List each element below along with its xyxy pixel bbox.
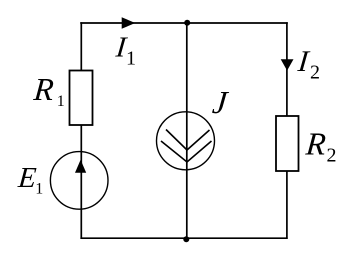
chevron upper of J — [166, 130, 210, 151]
svg-text:2: 2 — [327, 145, 337, 167]
chevron lower of J — [161, 141, 212, 162]
wire middle vertical — [186, 23, 188, 239]
node top junction — [184, 20, 190, 26]
wire left vertical middle — [80, 125, 82, 153]
wire right vertical — [286, 22, 288, 239]
node bottom junction — [183, 236, 189, 242]
wire left vertical upper — [80, 22, 82, 71]
svg-text:J: J — [211, 84, 231, 120]
arrowhead I1 direction — [122, 17, 136, 29]
svg-text:1: 1 — [57, 93, 65, 110]
arrowhead I2 direction — [281, 59, 294, 70]
resistor R2 — [276, 116, 299, 171]
svg-text:R: R — [304, 126, 328, 162]
current source J — [157, 112, 215, 170]
wire top horizontal — [80, 22, 288, 24]
wire bottom horizontal — [80, 237, 287, 239]
wire through E1 — [80, 153, 82, 239]
resistor R1 — [70, 71, 93, 126]
svg-text:2: 2 — [310, 62, 320, 84]
source E1 — [50, 152, 108, 210]
svg-text:R: R — [31, 71, 55, 107]
arrowhead E1 emf up — [75, 160, 86, 173]
svg-text:1: 1 — [35, 181, 43, 198]
svg-text:1: 1 — [126, 48, 136, 70]
